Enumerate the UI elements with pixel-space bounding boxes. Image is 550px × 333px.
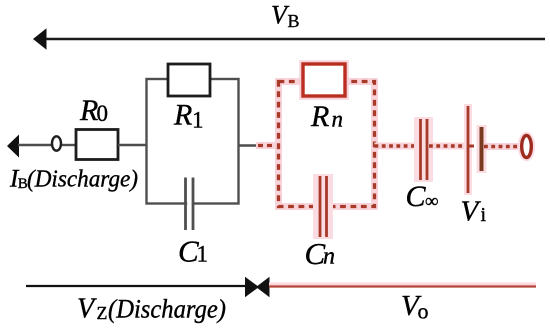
label Vo: [401, 290, 429, 324]
wire loop to red network junction: [239, 144, 257, 147]
wire red dashed lead-in: [256, 142, 278, 149]
capacitor C1: [186, 178, 194, 231]
wire terminal to R0: [62, 144, 76, 146]
resistor R0: [76, 130, 118, 160]
wire R1C1 parallel loop rectangle: [147, 79, 239, 204]
wire from IB arrow to terminal: [18, 144, 52, 146]
label C1: [178, 234, 208, 269]
svg-text:(Discharge): (Discharge): [108, 295, 226, 324]
label IB(Discharge): [9, 166, 138, 193]
label VZ(Discharge): [77, 294, 226, 325]
label Cinf: [406, 180, 439, 213]
label R0: [79, 94, 108, 127]
capacitor Cn: [313, 174, 333, 239]
resistor Rn: [303, 64, 345, 96]
svg-text:0: 0: [97, 101, 109, 126]
svg-text:R: R: [79, 94, 98, 127]
wire between battery plates: [469, 145, 480, 148]
wire RnCn dashed parallel loop rectangle: [279, 82, 375, 207]
svg-text:Z: Z: [97, 303, 108, 323]
node IB terminal arrowhead: [7, 135, 19, 158]
resistor R1: [168, 64, 210, 96]
wire R0 to RC loop: [118, 144, 147, 146]
wire red dotted loop to Cinf: [375, 143, 419, 150]
svg-text:V: V: [461, 196, 482, 228]
svg-text:B: B: [288, 11, 300, 31]
wire dotted Vi to output terminal: [484, 143, 518, 150]
capacitor Cinf: [414, 117, 433, 182]
svg-text:(Discharge): (Discharge): [27, 167, 138, 193]
wire VB measurement arrow line: [44, 38, 545, 40]
svg-text:1: 1: [197, 242, 209, 267]
label Rn: [310, 100, 343, 133]
wire VZ measurement line: [26, 285, 246, 287]
node input terminal circle: [52, 136, 61, 150]
svg-text:n: n: [323, 244, 335, 270]
node output terminal circle: [522, 136, 532, 158]
label Cn: [305, 236, 336, 271]
battery Vi short plate: [477, 125, 487, 173]
svg-text:o: o: [418, 299, 429, 324]
svg-text:R: R: [173, 99, 192, 132]
wire dotted Cinf to Vi: [429, 143, 465, 150]
label R1: [173, 99, 204, 133]
svg-text:V: V: [77, 294, 97, 325]
node VB label: [271, 1, 300, 32]
svg-text:1: 1: [192, 108, 204, 133]
node Vo arrowhead left-pointing: [256, 277, 270, 297]
node VZ arrowhead right-pointing: [245, 277, 259, 297]
node VB arrowhead left: [33, 28, 47, 49]
svg-text:R: R: [310, 100, 329, 133]
wire Vo measurement line red: [269, 285, 536, 287]
svg-text:n: n: [332, 107, 344, 132]
svg-text:∞: ∞: [425, 191, 439, 212]
label Vi: [461, 196, 487, 228]
svg-text:C: C: [406, 180, 427, 213]
battery Vi long plate: [464, 104, 472, 195]
svg-text:i: i: [481, 204, 487, 226]
